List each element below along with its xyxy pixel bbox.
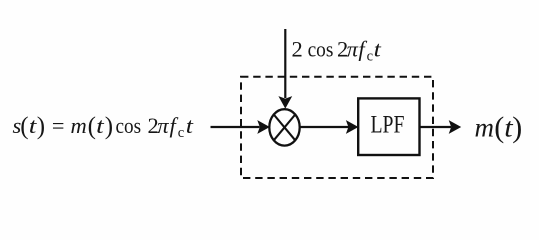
svg-text:π: π: [157, 113, 169, 138]
svg-text:2: 2: [292, 37, 303, 62]
svg-text:=: =: [52, 113, 65, 138]
svg-text:c: c: [367, 49, 373, 65]
svg-text:(: (: [494, 111, 504, 144]
svg-text:(: (: [20, 113, 28, 140]
wire: multiplier to LPF: [300, 126, 349, 128]
wire: output arrow: [420, 126, 452, 128]
svg-text:m: m: [475, 113, 495, 143]
multiplier (mixer) circle with X: [269, 109, 299, 145]
svg-text:t: t: [186, 113, 194, 138]
svg-text:π: π: [347, 37, 359, 62]
svg-text:m: m: [71, 113, 87, 138]
svg-text:): ): [512, 111, 522, 144]
input label s(t) = m(t) cos 2pi fc t: [13, 113, 194, 141]
svg-text:t: t: [96, 113, 104, 138]
svg-text:cos: cos: [308, 37, 334, 62]
svg-text:): ): [37, 113, 45, 140]
dashed demodulator box: [241, 77, 433, 178]
local oscillator label 2 cos 2pi fc t: [292, 37, 382, 65]
output label m(t): [475, 111, 523, 144]
svg-text:): ): [105, 113, 113, 140]
svg-text:t: t: [374, 37, 382, 62]
svg-text:LPF: LPF: [371, 110, 405, 139]
wire: input arrow into multiplier: [211, 126, 260, 128]
svg-text:(: (: [88, 113, 96, 140]
LPF block: [358, 98, 419, 155]
wire: oscillator drop line into multiplier: [284, 29, 286, 98]
svg-text:c: c: [178, 125, 184, 141]
svg-text:cos: cos: [116, 113, 142, 138]
